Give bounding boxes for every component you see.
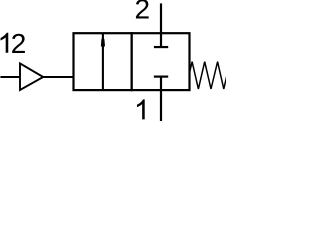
pilot signal line 12 (left) [0, 76, 20, 78]
return spring (right) [190, 62, 227, 89]
port 2 connection line (top) [160, 3, 162, 33]
svg-text:2: 2 [135, 0, 151, 25]
label 12 : digit 1 (custom no-serif glyph) [1, 33, 9, 53]
valve body left square (position a) [74, 33, 132, 90]
flow path arrowhead (up) in left square [101, 36, 105, 46]
svg-text:2: 2 [11, 28, 27, 59]
label 1 (bottom port, custom no-serif glyph) [137, 99, 145, 119]
blocked port 2 stub in right square [160, 33, 162, 47]
blocked port 1 bar [154, 75, 168, 77]
flow path line in left square [102, 33, 104, 90]
blocked port 2 bar [154, 46, 168, 48]
port 1 connection line (bottom) [160, 90, 162, 121]
blocked port 1 stub in right square [160, 77, 162, 91]
wire from pilot triangle to valve body [43, 76, 73, 78]
pilot triangle [20, 63, 43, 90]
valve body right square (position b) [132, 33, 190, 90]
